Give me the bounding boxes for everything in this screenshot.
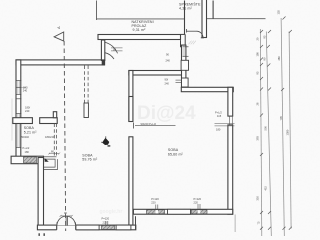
svg-text:P+L/2: P+L/2 — [23, 146, 30, 150]
svg-text:240: 240 — [25, 109, 30, 113]
svg-text:180/240: 180/240 — [45, 135, 55, 139]
dim line 80 above step — [48, 153, 60, 155]
svg-text:240: 240 — [23, 89, 28, 93]
svg-text:220: 220 — [103, 220, 108, 224]
node center room top wall — [129, 71, 184, 76]
node double entry door — [57, 216, 75, 225]
svg-text:1380: 1380 — [286, 129, 290, 135]
door jamb rect — [181, 60, 188, 70]
dim marks entry door — [57, 215, 76, 226]
node corridor wall — [182, 45, 186, 87]
svg-text:316: 316 — [256, 196, 260, 201]
svg-text:P+L/2: P+L/2 — [215, 110, 222, 114]
node door leaf + arc north (opens up into passage) — [187, 29, 204, 38]
window lines in right wall gap — [215, 116, 235, 126]
svg-text:705: 705 — [279, 116, 283, 121]
window hatch in bottom wall — [24, 157, 37, 163]
svg-text:240: 240 — [166, 59, 171, 63]
node right room bottom wall — [133, 209, 232, 214]
tiny dim numbers — [256, 10, 290, 225]
svg-text:155: 155 — [277, 10, 281, 15]
node step threshold — [44, 157, 58, 170]
node top band north wall — [98, 35, 181, 40]
node wing top wall — [16, 60, 105, 65]
svg-text:393: 393 — [256, 136, 260, 141]
svg-text:280: 280 — [277, 56, 281, 61]
svg-text:500: 500 — [264, 126, 268, 131]
node soba521 top wall — [13, 112, 57, 124]
tiny spec labels — [21, 53, 222, 225]
small marks in rooms — [102, 138, 109, 145]
svg-text:240: 240 — [165, 82, 170, 86]
svg-text:9,31 m²: 9,31 m² — [133, 28, 147, 32]
node section line A — [54, 32, 66, 231]
svg-text:220: 220 — [151, 201, 156, 205]
node bottom wall center — [37, 225, 135, 230]
svg-text:Di@24: Di@24 — [137, 103, 196, 124]
window junction ticks on left wall — [16, 81, 26, 148]
post at wing wall end — [102, 59, 105, 65]
node spremiste room — [185, 0, 214, 38]
node soba521 bottom wall — [11, 156, 43, 164]
door gap in bottom wall — [57, 225, 76, 231]
node left exterior wall — [16, 60, 21, 157]
room labels — [24, 1, 201, 161]
svg-text:180/: 180/ — [25, 106, 30, 110]
svg-text:4,31 m²: 4,31 m² — [179, 6, 193, 10]
leader for door — [134, 123, 176, 129]
node dashed partition soba521 — [54, 124, 56, 157]
node wing door arcs — [105, 42, 123, 59]
faint ext dim line left — [11, 99, 13, 141]
svg-text:P=120: P=120 — [194, 197, 202, 201]
ticks on dim lines — [260, 17, 292, 230]
node dashed partition hall — [85, 66, 89, 104]
window divider ticks — [106, 204, 200, 225]
svg-text:P=120: P=120 — [151, 197, 159, 201]
node right room top wall — [181, 87, 233, 91]
svg-text:65,60 m²: 65,60 m² — [168, 152, 184, 156]
svg-text:180: 180 — [256, 52, 260, 57]
vestibule wall — [101, 40, 104, 60]
band top line extension + hook — [181, 34, 186, 47]
svg-text:180: 180 — [216, 128, 221, 132]
node ext line bottom right — [234, 215, 236, 233]
dimension lines right — [260, 18, 291, 236]
node lower-left exterior wall — [38, 158, 43, 226]
svg-text:180: 180 — [25, 150, 30, 154]
svg-text:115: 115 — [217, 114, 222, 118]
svg-text:90/240 P+L/2: 90/240 P+L/2 — [141, 122, 157, 126]
svg-text:90/: 90/ — [165, 78, 169, 82]
node vertical connector bottom — [135, 216, 137, 230]
black triangle door mark — [45, 158, 49, 162]
svg-text:5,21 m²: 5,21 m² — [24, 131, 38, 135]
node right wall — [228, 87, 233, 116]
ticks below bottom-left corner — [38, 233, 40, 236]
svg-text:415: 415 — [264, 186, 268, 191]
svg-text:220: 220 — [194, 201, 199, 205]
svg-text:google.hr: google.hr — [100, 209, 123, 215]
sill line entry door — [57, 225, 76, 227]
faint threshold hatch below door — [189, 41, 196, 45]
node center room left wall — [129, 71, 133, 122]
svg-text:80/240: 80/240 — [21, 135, 29, 139]
wire: roof overhang line top — [97, 1, 266, 21]
svg-text:P=120: P=120 — [102, 217, 110, 221]
svg-text:59,76 m²: 59,76 m² — [82, 157, 98, 161]
